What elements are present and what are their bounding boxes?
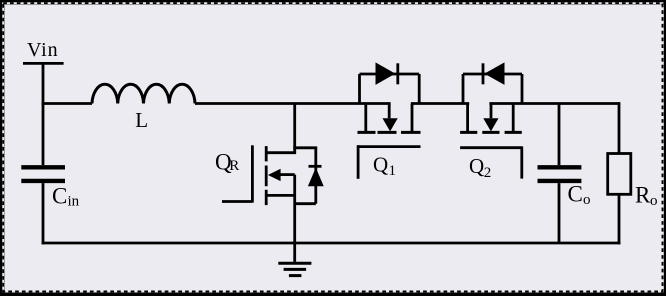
inductor L: [92, 84, 195, 103]
svg-text:R: R: [229, 158, 239, 174]
svg-text:C: C: [52, 184, 67, 209]
transistor Q1 channel left bar: [358, 131, 376, 134]
transistor QR channel top segment: [265, 146, 268, 161]
ground bar 3: [289, 274, 302, 277]
wire bottom bus: [42, 242, 621, 245]
capacitor Cin bottom plate: [21, 179, 65, 183]
wire Cin to bus: [42, 183, 45, 244]
transistor Q1 middle stub: [388, 104, 391, 119]
transistor Q1 gate lead: [357, 145, 360, 179]
transistor QR drain wire: [293, 104, 296, 153]
resistor Ro bottom lead: [618, 194, 621, 244]
transistor QR source arrow tail: [280, 173, 295, 176]
svg-text:Vin: Vin: [27, 39, 59, 61]
resistor Ro body: [608, 154, 631, 195]
svg-text:Q: Q: [469, 154, 484, 178]
transistor Q2 diode top wire: [463, 73, 522, 76]
capacitor Co bottom lead: [558, 183, 561, 243]
transistor QR body diode triangle: [308, 168, 324, 187]
transistor QR source vertical wire: [293, 175, 296, 262]
transistor Q2 diode cathode bar: [482, 63, 485, 84]
transistor Q1 gate bar: [358, 145, 420, 148]
transistor Q1 left stub: [364, 104, 367, 132]
transistor QR gate lead: [222, 200, 252, 203]
wire Q2 middle to top-right corner: [489, 102, 619, 105]
transistor Q2 diode right vertical: [521, 74, 524, 104]
transistor Q1 channel right bar: [401, 131, 421, 134]
ground bar 2: [284, 268, 307, 271]
transistor Q2 gate bar: [460, 146, 522, 149]
transistor Q1 diode cathode bar: [396, 63, 399, 84]
transistor QR body diode branch vertical: [314, 148, 317, 204]
transistor QR bottom stub: [266, 194, 295, 197]
transistor Q2 body arrow head: [483, 118, 498, 131]
transistor QR body diode bottom wire: [295, 202, 316, 205]
svg-text:Q: Q: [373, 152, 388, 176]
ground bar 1: [278, 262, 311, 265]
transistor QR top stub: [266, 151, 296, 154]
wire inductor to Q1 middle: [195, 102, 391, 105]
wire right vertical to resistor: [618, 102, 621, 153]
svg-text:o: o: [583, 192, 591, 208]
transistor QR source arrow head: [268, 169, 281, 181]
node Vin terminal bar: [23, 62, 64, 65]
transistor Q2 channel right bar: [505, 131, 522, 134]
transistor Q2 left stub: [466, 104, 469, 132]
transistor Q2 middle stub: [490, 104, 493, 119]
transistor QR channel bottom segment: [265, 190, 268, 205]
capacitor Cin top plate: [21, 165, 65, 169]
transistor Q1 diode triangle: [376, 62, 396, 85]
transistor Q1 diode left vertical: [358, 74, 361, 104]
svg-text:2: 2: [484, 165, 492, 181]
capacitor Co bottom plate: [538, 179, 582, 183]
svg-text:1: 1: [389, 163, 397, 179]
svg-text:R: R: [635, 183, 651, 208]
svg-text:in: in: [68, 193, 80, 209]
transistor QR body diode cathode bar: [309, 165, 322, 168]
transistor QR gate bar: [251, 145, 254, 202]
transistor Q2 gate lead: [520, 146, 523, 178]
wire Q1 right to Q2 left: [411, 102, 469, 105]
transistor Q2 channel middle bar: [482, 131, 499, 134]
transistor Q2 diode left vertical: [462, 74, 465, 104]
svg-text:o: o: [650, 193, 658, 209]
transistor QR drain-to-diode stub: [293, 146, 317, 149]
transistor Q2 right stub: [512, 104, 515, 132]
svg-text:L: L: [135, 108, 148, 132]
wire left vertical from Vin to Cin: [42, 63, 45, 165]
transistor Q1 right stub: [411, 104, 414, 132]
transistor Q1 diode right vertical: [418, 74, 421, 104]
wire top left to inductor: [42, 102, 92, 105]
transistor QR channel middle segment: [265, 166, 268, 187]
transistor Q2 diode triangle: [484, 62, 504, 85]
svg-text:C: C: [568, 182, 583, 207]
transistor Q1 body arrow head: [383, 118, 398, 131]
capacitor Co top lead: [558, 104, 561, 166]
transistor Q1 channel middle bar: [378, 131, 397, 134]
transistor Q2 channel left bar: [460, 131, 477, 134]
capacitor Co top plate: [538, 165, 582, 169]
transistor Q1 diode top wire: [360, 73, 420, 76]
